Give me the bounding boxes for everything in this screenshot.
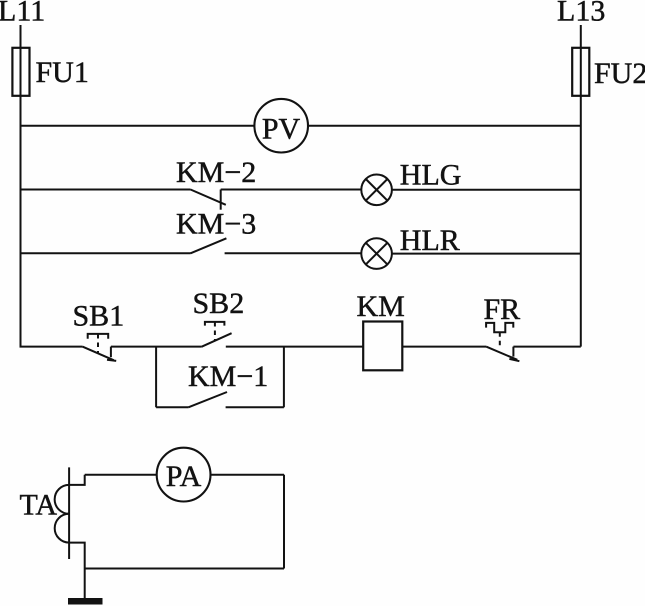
svg-text:SB2: SB2 bbox=[193, 287, 245, 320]
voltmeter PV bbox=[254, 99, 308, 153]
pushbutton SB1 bbox=[73, 300, 125, 361]
svg-text:L11: L11 bbox=[0, 0, 45, 28]
wire loop top right bbox=[211, 474, 285, 476]
wire right rail bbox=[580, 25, 582, 347]
wire left rail bbox=[20, 25, 22, 347]
svg-text:FU2: FU2 bbox=[594, 57, 645, 90]
svg-text:KM: KM bbox=[357, 290, 405, 323]
lamp HLR bbox=[361, 224, 459, 269]
lamp HLG bbox=[361, 159, 461, 206]
wire row3 right bbox=[392, 253, 581, 255]
svg-text:FU1: FU1 bbox=[36, 56, 89, 89]
wire CT bottom step bbox=[69, 543, 85, 569]
svg-text:KM−3: KM−3 bbox=[176, 208, 256, 241]
wire row3 mid bbox=[225, 252, 362, 254]
pushbutton SB2 bbox=[193, 287, 245, 347]
contact KM-3 bbox=[176, 208, 256, 254]
wire branch right vertical bbox=[283, 347, 285, 408]
wire branch left vertical bbox=[155, 347, 157, 408]
wire loop bottom bbox=[85, 568, 284, 570]
contact KM-1 bbox=[188, 360, 268, 407]
svg-text:L13: L13 bbox=[557, 0, 605, 28]
wire row4 seg1 bbox=[20, 346, 83, 348]
ground bbox=[68, 598, 103, 605]
coil KM bbox=[357, 290, 405, 370]
wire loop right vertical bbox=[283, 475, 285, 569]
wire branch bottom left bbox=[156, 406, 188, 408]
wire loop top left bbox=[85, 474, 157, 476]
svg-text:PA: PA bbox=[166, 460, 202, 493]
svg-text:SB1: SB1 bbox=[73, 300, 125, 333]
fuse FU1 bbox=[12, 48, 29, 96]
wire row4 seg2 bbox=[111, 346, 201, 348]
svg-text:PV: PV bbox=[262, 112, 301, 145]
svg-text:KM−1: KM−1 bbox=[188, 360, 268, 393]
wire row2 mid bbox=[221, 189, 362, 191]
wire row1 left bbox=[21, 125, 255, 127]
wire row3 left bbox=[21, 252, 191, 254]
contact KM-2 bbox=[176, 156, 256, 210]
wire row1 right bbox=[308, 125, 581, 127]
thermal contact FR bbox=[484, 293, 521, 361]
wire ground lead bbox=[84, 569, 86, 599]
wire row4 seg3 bbox=[226, 346, 363, 348]
ammeter PA bbox=[157, 448, 211, 502]
current transformer TA bbox=[20, 467, 70, 559]
wire CT top step bbox=[69, 475, 85, 485]
svg-text:KM−2: KM−2 bbox=[176, 156, 256, 189]
wire row2 left bbox=[21, 189, 191, 191]
svg-text:FR: FR bbox=[484, 293, 521, 326]
wire row2 right bbox=[392, 189, 581, 191]
wire branch bottom right bbox=[226, 406, 284, 408]
svg-text:TA: TA bbox=[20, 489, 58, 522]
svg-text:HLR: HLR bbox=[400, 224, 460, 257]
wire row4 seg4 bbox=[402, 346, 486, 348]
fuse FU2 bbox=[572, 48, 589, 96]
wire row4 seg5 bbox=[513, 346, 580, 348]
svg-text:HLG: HLG bbox=[400, 159, 462, 192]
